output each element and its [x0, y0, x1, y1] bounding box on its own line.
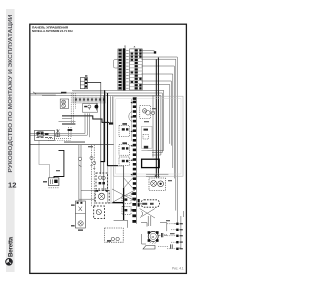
wire from C1: [87, 81, 100, 83]
connector C1 body: [80, 78, 87, 89]
strip1 thick bar: [123, 48, 126, 90]
wire from C1 down: [100, 82, 102, 174]
black disc: [95, 105, 99, 109]
strip4 vertical line: [136, 97, 138, 224]
sensor circle 1: [62, 100, 66, 104]
heavy vertical pair: [156, 58, 158, 178]
heavy wire A: [100, 90, 104, 161]
strip1 plug tab: [113, 60, 118, 68]
strip4 arrows: [130, 102, 132, 211]
svg-text:NOVELLA AVTONOM 24-71 RAI: NOVELLA AVTONOM 24-71 RAI: [32, 29, 73, 33]
diagram frame: [30, 24, 187, 273]
strip2 outline: [130, 49, 143, 90]
L4 mark: [125, 198, 128, 200]
wire y59.2 corner: [141, 59, 175, 210]
strip2 left marks: [131, 53, 134, 83]
wire pair to bottom box: [79, 145, 81, 201]
small marks: [84, 106, 87, 108]
wire y53 to node: [141, 52, 153, 54]
wires left cluster: [30, 133, 88, 135]
long wire y93: [35, 93, 163, 153]
label smudge: [61, 92, 66, 94]
rim squares: [148, 231, 151, 234]
small connector bars: [170, 244, 172, 248]
label text row: [64, 141, 85, 143]
wires from frame border: [30, 93, 62, 95]
relay box inner wires: [111, 166, 114, 203]
X top: [79, 207, 82, 211]
svg-text:M: M: [152, 235, 155, 239]
dotted line row: [48, 137, 71, 139]
L1 mark: [122, 128, 125, 130]
L5 mark: [125, 209, 128, 211]
box2 inner: [116, 99, 181, 174]
capacitor dashes: [164, 234, 167, 236]
box2 outer: [114, 96, 183, 176]
igniter cluster: [49, 178, 59, 186]
beretta logo icon: [6, 259, 13, 266]
box content marks: [36, 132, 39, 134]
thin cross wires left: [59, 119, 76, 122]
dashed pin element: [69, 127, 71, 137]
wire y50.5: [141, 50, 154, 52]
X element: [56, 129, 59, 137]
left end tick: [33, 92, 36, 94]
marks: [45, 133, 48, 135]
strip2 row lines: [130, 52, 143, 87]
wire y57 corner: [141, 57, 177, 224]
dashed verticals: [71, 93, 75, 124]
svg-text:РУКОВОДСТВО ПО МОНТАЖУ И ЭКСПЛ: РУКОВОДСТВО ПО МОНТАЖУ И ЭКСПЛУАТАЦИИ: [8, 14, 14, 172]
wire y66 corner: [141, 66, 174, 178]
node dot: [154, 51, 156, 53]
strip2 right edge squares: [139, 49, 141, 89]
tiny labels right: [180, 223, 183, 249]
dotted line row 2: [48, 140, 71, 142]
dashed run right: [158, 246, 169, 248]
sensor circle 2: [62, 104, 66, 108]
sidebar strip: [6, 9, 15, 272]
strip4 squares: [132, 97, 136, 223]
dashed fan box D2: [95, 191, 109, 203]
circle-x bottom: [78, 221, 83, 226]
verticals from circle box down: [85, 113, 90, 137]
dashed box L4: [122, 196, 131, 204]
tall box: [75, 201, 85, 228]
sensor box: [60, 99, 68, 108]
C1 label: [85, 75, 87, 77]
wire y81 corner: [141, 81, 171, 146]
strip1 left squares column: [118, 49, 122, 90]
hatch bottom: [150, 241, 156, 243]
symbols on dashed pair: [90, 156, 93, 159]
svg-text:а: а: [134, 45, 136, 49]
svg-text:Б: Б: [124, 45, 126, 49]
L3 mark: [122, 160, 125, 162]
heavy wire B: [108, 93, 119, 166]
long wire y90.4: [72, 90, 164, 150]
dashed box L1: [119, 126, 129, 137]
gray band ticks: [76, 97, 100, 103]
wire y74 corner: [141, 74, 172, 168]
wire v2: [103, 96, 105, 192]
thermostat box: [35, 130, 55, 140]
L1 label: [122, 123, 127, 125]
horizontal links to fan box: [79, 191, 95, 200]
pump circle: [148, 231, 158, 241]
labels: [71, 204, 75, 206]
pair end blob: [109, 122, 113, 124]
step wire 2: [62, 123, 75, 125]
svg-text:Beretta: Beretta: [7, 236, 14, 257]
thin pair ending blob: [110, 96, 112, 122]
L2 label: [122, 142, 127, 144]
dashed box D1 two circles: [96, 173, 108, 189]
long wire y95.5: [42, 96, 161, 156]
dashed circle box D3: [94, 206, 105, 219]
wire y84.5 corner: [141, 85, 169, 144]
dashed box L2: [119, 145, 129, 156]
circle on wire: [78, 157, 81, 160]
L2 mark: [122, 147, 125, 149]
svg-text:12: 12: [8, 181, 16, 190]
small arc: [141, 211, 142, 215]
wire below pump: [142, 234, 146, 244]
svg-text:Рис. 4.1: Рис. 4.1: [172, 267, 184, 271]
strip1 tick column: [126, 50, 128, 88]
pump bottom loop: [143, 246, 155, 250]
dashed vertical pair x91.5/94: [92, 145, 95, 207]
relay box right heavy edge: [123, 166, 125, 188]
long horizontal line y144.7: [30, 144, 114, 146]
strip4 arc bracket: [129, 112, 132, 122]
dashed box L3: [119, 157, 129, 165]
capacitor: [158, 234, 167, 236]
strip2 squares column: [135, 49, 138, 89]
horizontals above box B: [146, 173, 168, 175]
entry wires: [141, 216, 167, 231]
valve wire with circle: [152, 96, 154, 158]
gray wire from box down: [39, 141, 50, 178]
dashed box L5: [122, 206, 131, 214]
small grid box: [38, 132, 44, 137]
box: [83, 104, 98, 113]
valve circle: [151, 111, 154, 114]
step wire 1: [62, 116, 109, 123]
black wire elbow: [54, 150, 64, 178]
inner circle man: [88, 105, 91, 108]
label left: [43, 181, 47, 183]
